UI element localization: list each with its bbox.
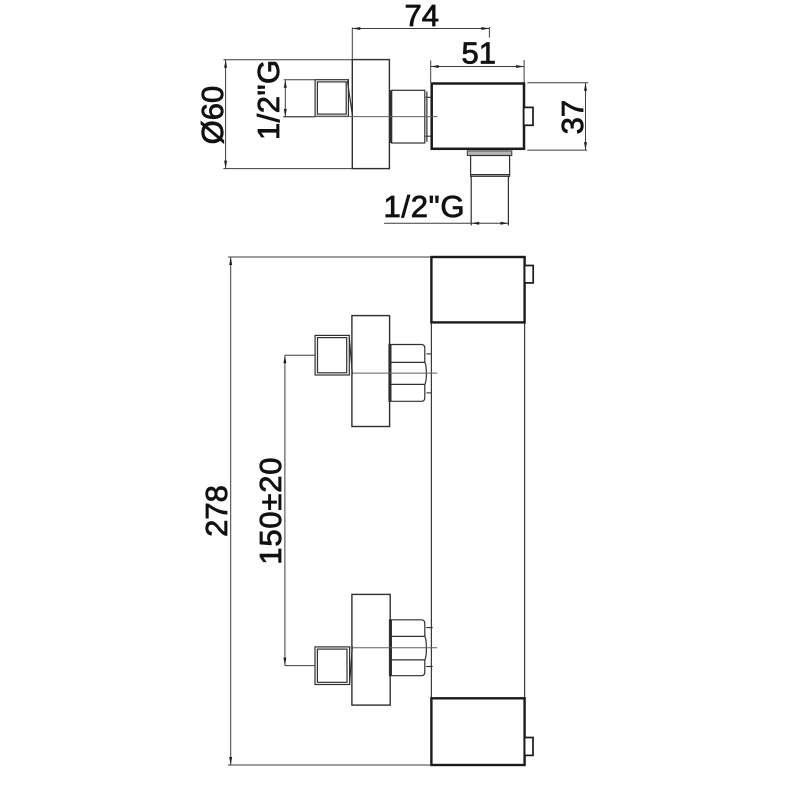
bottom block (front view) [431, 698, 524, 765]
outlet threaded section [471, 156, 510, 177]
top tab [525, 266, 534, 283]
dimension 150±20 [285, 355, 315, 665]
mixer body (side view) [432, 84, 524, 149]
outlet pipe 1/2"G [471, 176, 508, 225]
dimension Ø60 [223, 60, 352, 169]
body bar (front view) [431, 257, 524, 765]
svg-text:278: 278 [199, 485, 234, 537]
dimension 74 [352, 27, 489, 59]
dimension 1/2"G (outlet) [384, 222, 509, 224]
upper inlet nut (front view) [315, 335, 349, 375]
upper hex connector (front view) [389, 345, 426, 402]
bottom tab [525, 738, 533, 756]
connector-body ticks (side view) [426, 97, 431, 136]
top block (front view) [431, 257, 524, 322]
wall plate (side view) [352, 60, 389, 169]
lower inlet nut (front view) [315, 647, 350, 685]
outlet collar [467, 151, 512, 156]
dimension 37 [527, 83, 588, 150]
svg-text:37: 37 [555, 100, 590, 134]
lower connector ticks [426, 628, 433, 667]
lower wall plate (front view) [352, 594, 390, 705]
svg-text:1/2"G: 1/2"G [383, 189, 465, 224]
upper centerline (front view) [351, 372, 437, 374]
lower hex connector (front view) [390, 620, 427, 676]
inlet nut 1/2"G (side view) [315, 80, 348, 117]
right tab (side view) [524, 107, 533, 125]
upper taper cone [349, 337, 352, 374]
dimension 51 [431, 60, 524, 83]
connector hex (side view) [391, 90, 427, 143]
svg-text:Ø60: Ø60 [195, 86, 230, 145]
dimension 278 [228, 257, 431, 765]
centerline (top view valve axis) [283, 116, 438, 118]
svg-text:74: 74 [405, 0, 439, 33]
svg-text:1/2"G: 1/2"G [251, 59, 286, 140]
taper cone between nut and plate [347, 81, 352, 115]
upper wall plate (front view) [352, 316, 390, 427]
svg-text:150±20: 150±20 [253, 457, 288, 565]
upper connector ticks [426, 354, 431, 393]
dimension 1/2"G (inlet, top view) [284, 80, 315, 117]
svg-text:51: 51 [462, 36, 496, 71]
lower centerline (front view) [351, 647, 438, 649]
lower taper cone [350, 646, 353, 683]
